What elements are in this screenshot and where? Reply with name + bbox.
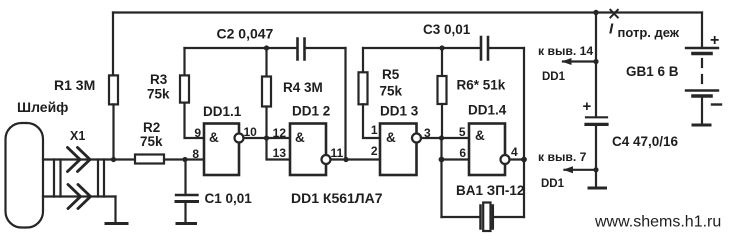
svg-text:2: 2 bbox=[371, 144, 378, 158]
wire C3 line left end down to R5 bbox=[362, 48, 364, 72]
gate DD1.3 bbox=[380, 124, 417, 176]
svg-text:R3: R3 bbox=[150, 72, 168, 87]
connector X1 top arrow bbox=[68, 148, 91, 172]
node junction C2 line / R4 bbox=[264, 45, 269, 50]
wire battery negative lead bbox=[701, 96, 703, 125]
resistor R6 bbox=[441, 48, 443, 76]
wire pin 13 tie bbox=[267, 138, 291, 160]
wire bottom contact drop to common bbox=[114, 197, 116, 224]
ground bar below C4 bbox=[589, 187, 606, 190]
node junction C1 tap bbox=[182, 157, 187, 162]
gate DD1.4 bbox=[469, 124, 505, 176]
capacitor C3 bbox=[481, 37, 488, 60]
svg-text:9: 9 bbox=[194, 126, 201, 140]
svg-text:12: 12 bbox=[273, 126, 287, 140]
svg-text:75k: 75k bbox=[147, 87, 170, 102]
wire C3 line bbox=[363, 47, 524, 49]
svg-text:DD1: DD1 bbox=[541, 178, 565, 190]
wire left rail drop to R1 bbox=[112, 13, 114, 76]
break mark for current measurement bbox=[610, 10, 617, 18]
wire pin 6 tie bbox=[442, 158, 470, 160]
svg-text:3: 3 bbox=[424, 126, 431, 140]
wire right rail drop to GB1 bbox=[701, 13, 703, 49]
resistor R3 bbox=[180, 75, 189, 102]
svg-text:+: + bbox=[583, 98, 592, 115]
svg-text:&: & bbox=[209, 130, 219, 145]
svg-text:10: 10 bbox=[244, 125, 258, 139]
wire piezo left lead bbox=[442, 216, 481, 218]
wire C2 right end down to pin 11 node bbox=[344, 48, 346, 160]
svg-text:&: & bbox=[386, 130, 396, 145]
wire arrow to pin 7 bbox=[565, 169, 597, 171]
svg-text:+: + bbox=[710, 32, 719, 49]
svg-text:R2: R2 bbox=[143, 120, 160, 135]
svg-text:DD1.1: DD1.1 bbox=[203, 104, 242, 119]
wire C2 line left end down to R3 bbox=[183, 48, 185, 75]
svg-text:BA1 ЗП-12: BA1 ЗП-12 bbox=[456, 183, 524, 198]
node junction rail / supply drop bbox=[593, 10, 598, 15]
svg-text:DD1: DD1 bbox=[542, 71, 566, 83]
svg-text:11: 11 bbox=[331, 146, 344, 160]
wire DD1.4 output 4 bbox=[510, 158, 525, 160]
svg-text:DD1 3: DD1 3 bbox=[380, 104, 419, 119]
capacitor C4 bbox=[586, 116, 607, 118]
svg-text:C1 0,01: C1 0,01 bbox=[205, 191, 253, 206]
battery GB1 bbox=[686, 47, 718, 49]
node junction C3 line / R6 bbox=[439, 45, 444, 50]
svg-text:&: & bbox=[475, 128, 485, 143]
svg-text:www.shems.h1.ru: www.shems.h1.ru bbox=[594, 214, 721, 231]
svg-text:4: 4 bbox=[511, 145, 518, 159]
resistor R2 bbox=[135, 155, 164, 164]
connector X1 bottom arrow bbox=[68, 185, 91, 209]
svg-text:&: & bbox=[295, 130, 305, 145]
node junction R1/row bbox=[111, 157, 116, 162]
wire C2 line bbox=[185, 47, 346, 49]
wire output 3 node down to piezo left bbox=[440, 138, 442, 217]
ground bar below C1 bbox=[177, 222, 196, 225]
wire R5 to pin 1 bbox=[363, 104, 380, 138]
svg-text:R4 3M: R4 3M bbox=[283, 80, 323, 95]
wire R2 to pin 8 bbox=[164, 158, 204, 160]
capacitor C1 bbox=[184, 160, 186, 196]
svg-text:X1: X1 bbox=[70, 129, 85, 143]
svg-text:R6* 51k: R6* 51k bbox=[457, 78, 506, 93]
wire DD1.3 output 3 to DD1.4 pin 5 bbox=[421, 137, 469, 139]
resistor R4 bbox=[265, 48, 267, 77]
battery minus sign bbox=[712, 103, 721, 105]
svg-text:1: 1 bbox=[371, 123, 378, 137]
gate DD1.1 bbox=[204, 124, 239, 176]
ground bar below GB1 bbox=[693, 124, 710, 127]
node junction output 4 bbox=[521, 157, 527, 163]
connector X1 contact bars bbox=[54, 160, 104, 197]
svg-text:75k: 75k bbox=[140, 134, 163, 149]
svg-text:C3 0,01: C3 0,01 bbox=[423, 22, 471, 37]
wire piezo right lead bbox=[494, 216, 525, 218]
node junction R4 / pins 12-13 bbox=[264, 135, 269, 140]
wire loop to R2 row (node A) bbox=[43, 158, 135, 160]
wire loop bottom contact bbox=[43, 195, 116, 197]
ground bar below X1 bbox=[106, 222, 127, 225]
svg-text:R1 3M: R1 3M bbox=[54, 77, 95, 93]
wire R1 to node A bbox=[112, 104, 114, 159]
wire R3 to pin 9 bbox=[185, 103, 205, 138]
svg-text:R5: R5 bbox=[382, 67, 400, 82]
wire DD1.1 output 10 to DD1.2 bbox=[244, 137, 291, 139]
node junction pin14 arrow bbox=[593, 59, 598, 64]
svg-text:8: 8 bbox=[192, 147, 199, 161]
svg-text:C4 47,0/16: C4 47,0/16 bbox=[612, 134, 679, 149]
piezo emitter BA1 bbox=[479, 206, 482, 229]
wire DD1.2 output 11 to DD1.3 pin 2 bbox=[331, 158, 381, 160]
svg-text:75k: 75k bbox=[380, 84, 403, 99]
resistor R1 bbox=[109, 75, 118, 104]
wire arrow to pin 14 bbox=[563, 60, 596, 62]
svg-text:DD1 К561ЛА7: DD1 К561ЛА7 bbox=[291, 190, 383, 206]
wire top supply rail bbox=[113, 11, 702, 13]
svg-text:DD1.4: DD1.4 bbox=[468, 103, 507, 118]
svg-text:к выв. 14: к выв. 14 bbox=[538, 44, 593, 58]
loop (Шлейф) bbox=[6, 123, 44, 228]
svg-text:C2 0,047: C2 0,047 bbox=[217, 26, 274, 42]
resistor R5 bbox=[359, 72, 368, 104]
svg-text:6: 6 bbox=[459, 146, 466, 160]
svg-text:к выв. 7: к выв. 7 bbox=[538, 150, 587, 164]
svg-text:5: 5 bbox=[459, 125, 466, 139]
wire C3 right end down to piezo right bbox=[523, 48, 525, 217]
node junction R6 / output 3 bbox=[439, 135, 444, 140]
svg-text:I: I bbox=[609, 21, 614, 38]
svg-text:DD1 2: DD1 2 bbox=[292, 104, 330, 119]
node junction C2 feedback bbox=[343, 157, 348, 162]
svg-text:потр. деж: потр. деж bbox=[618, 25, 680, 40]
capacitor C2 bbox=[298, 39, 305, 60]
wire supply drop to C4 bbox=[595, 13, 597, 118]
svg-text:GB1 6 В: GB1 6 В bbox=[626, 64, 679, 79]
svg-text:13: 13 bbox=[273, 146, 287, 160]
node junction pin7 arrow bbox=[593, 167, 598, 172]
svg-text:Шлейф: Шлейф bbox=[17, 99, 68, 115]
node junction pin 6 bbox=[439, 157, 445, 163]
